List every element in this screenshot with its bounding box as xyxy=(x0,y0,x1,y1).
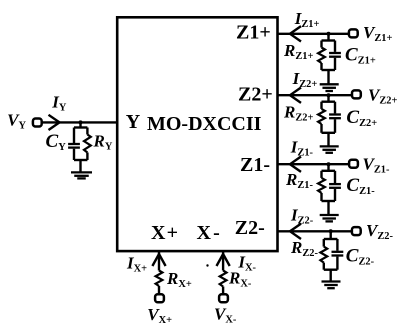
ground Z2+ xyxy=(320,145,339,147)
svg-text:CZ2+: CZ2+ xyxy=(346,107,377,129)
wire Z2+ network bottom xyxy=(322,132,336,134)
wire Y input xyxy=(42,121,118,123)
resistor RZ1- xyxy=(320,171,322,178)
svg-text:IZ2-: IZ2- xyxy=(290,206,314,227)
resistor RX+ xyxy=(156,271,163,287)
svg-text:Z2-: Z2- xyxy=(235,217,265,239)
resistor RZ2+ xyxy=(320,102,322,109)
svg-text:RY: RY xyxy=(93,131,113,152)
terminal VX- source node xyxy=(219,294,228,302)
svg-text:CZ1-: CZ1- xyxy=(346,175,375,197)
svg-text:VZ1-: VZ1- xyxy=(363,154,390,175)
current arrow IY xyxy=(49,115,60,130)
svg-text:IX+: IX+ xyxy=(126,253,147,274)
wire Z2+ xyxy=(278,94,353,96)
capacitor CZ1+ xyxy=(334,41,336,52)
wire Y network bottom xyxy=(74,159,87,161)
wire Z1+ xyxy=(278,33,349,35)
svg-text:VZ2-: VZ2- xyxy=(366,221,393,242)
svg-text:Z1-: Z1- xyxy=(240,154,270,176)
wire Z2- network bottom xyxy=(324,269,338,271)
capacitor CZ2+ xyxy=(334,102,336,114)
svg-text:VY: VY xyxy=(7,110,26,131)
svg-text:IZ2+: IZ2+ xyxy=(292,69,318,90)
resistor RX- xyxy=(220,271,227,287)
wire Z1- xyxy=(278,163,350,165)
svg-text:RZ2-: RZ2- xyxy=(290,238,318,259)
svg-text:CZ1+: CZ1+ xyxy=(345,45,376,67)
svg-text:VZ2+: VZ2+ xyxy=(368,85,397,106)
current arrow IZ1+ xyxy=(290,26,301,41)
terminal VZ1+ source node xyxy=(349,29,358,37)
terminal VZ2+ source node xyxy=(352,90,361,98)
svg-text:RX+: RX+ xyxy=(166,269,192,290)
resistor RZ2- xyxy=(323,239,325,247)
terminal VY source node xyxy=(33,119,42,127)
resistor RY xyxy=(86,128,88,135)
node Z1- junction xyxy=(327,162,331,166)
wire Z1- network bottom xyxy=(322,200,336,202)
ground Z1+ xyxy=(320,83,339,85)
wire Z1+ network stub xyxy=(327,34,329,41)
stray dot mark xyxy=(206,264,208,266)
terminal VZ2- source node xyxy=(352,227,361,235)
wire Z2- network stub xyxy=(330,231,332,239)
current arrow IX- xyxy=(217,254,230,266)
current arrow IZ1- xyxy=(290,157,301,172)
wire X- xyxy=(222,252,224,271)
svg-text:VZ1+: VZ1+ xyxy=(363,23,392,44)
node Z1+ junction xyxy=(327,32,331,36)
main block U1 MO-DXCCII xyxy=(117,17,277,251)
svg-text:IZ1-: IZ1- xyxy=(290,137,314,158)
current arrow IX+ xyxy=(152,254,165,266)
svg-text:IZ1+: IZ1+ xyxy=(294,9,320,30)
wire Y network stub xyxy=(79,122,81,127)
capacitor CZ1- xyxy=(334,171,336,183)
svg-text:VX-: VX- xyxy=(214,304,237,325)
ground Z1- xyxy=(320,214,339,216)
svg-text:MO-DXCCII: MO-DXCCII xyxy=(147,113,262,135)
terminal VZ1- source node xyxy=(349,160,358,168)
wire Z2+ network stub xyxy=(327,95,329,102)
svg-text:Z1+: Z1+ xyxy=(236,22,271,44)
ground Y xyxy=(71,171,92,173)
node Y junction xyxy=(79,120,83,124)
resistor RZ1+ xyxy=(320,41,322,48)
svg-text:RZ2+: RZ2+ xyxy=(283,103,313,124)
svg-text:X-: X- xyxy=(197,222,223,244)
wire X+ xyxy=(158,252,160,271)
capacitor CY xyxy=(73,128,75,144)
svg-text:Y: Y xyxy=(126,111,141,133)
svg-text:IY: IY xyxy=(51,92,67,113)
svg-text:RZ1-: RZ1- xyxy=(285,170,313,191)
svg-text:CY: CY xyxy=(46,131,67,153)
node Z2+ junction xyxy=(327,93,331,97)
terminal VX+ source node xyxy=(155,294,164,302)
current arrow IZ2+ xyxy=(290,88,301,103)
svg-text:Z2+: Z2+ xyxy=(238,84,273,106)
wire Z1+ network bottom xyxy=(322,69,336,71)
capacitor CZ2- xyxy=(336,239,338,251)
wire Z2- xyxy=(278,230,352,232)
current arrow IZ2- xyxy=(290,224,301,239)
svg-text:CZ2-: CZ2- xyxy=(346,245,375,267)
ground Z2- xyxy=(322,280,341,282)
node Z2- junction xyxy=(329,229,333,233)
svg-text:RZ1+: RZ1+ xyxy=(283,41,313,62)
svg-text:VX+: VX+ xyxy=(147,305,172,325)
wire Z1- network stub xyxy=(327,164,329,171)
svg-text:X+: X+ xyxy=(151,222,179,244)
